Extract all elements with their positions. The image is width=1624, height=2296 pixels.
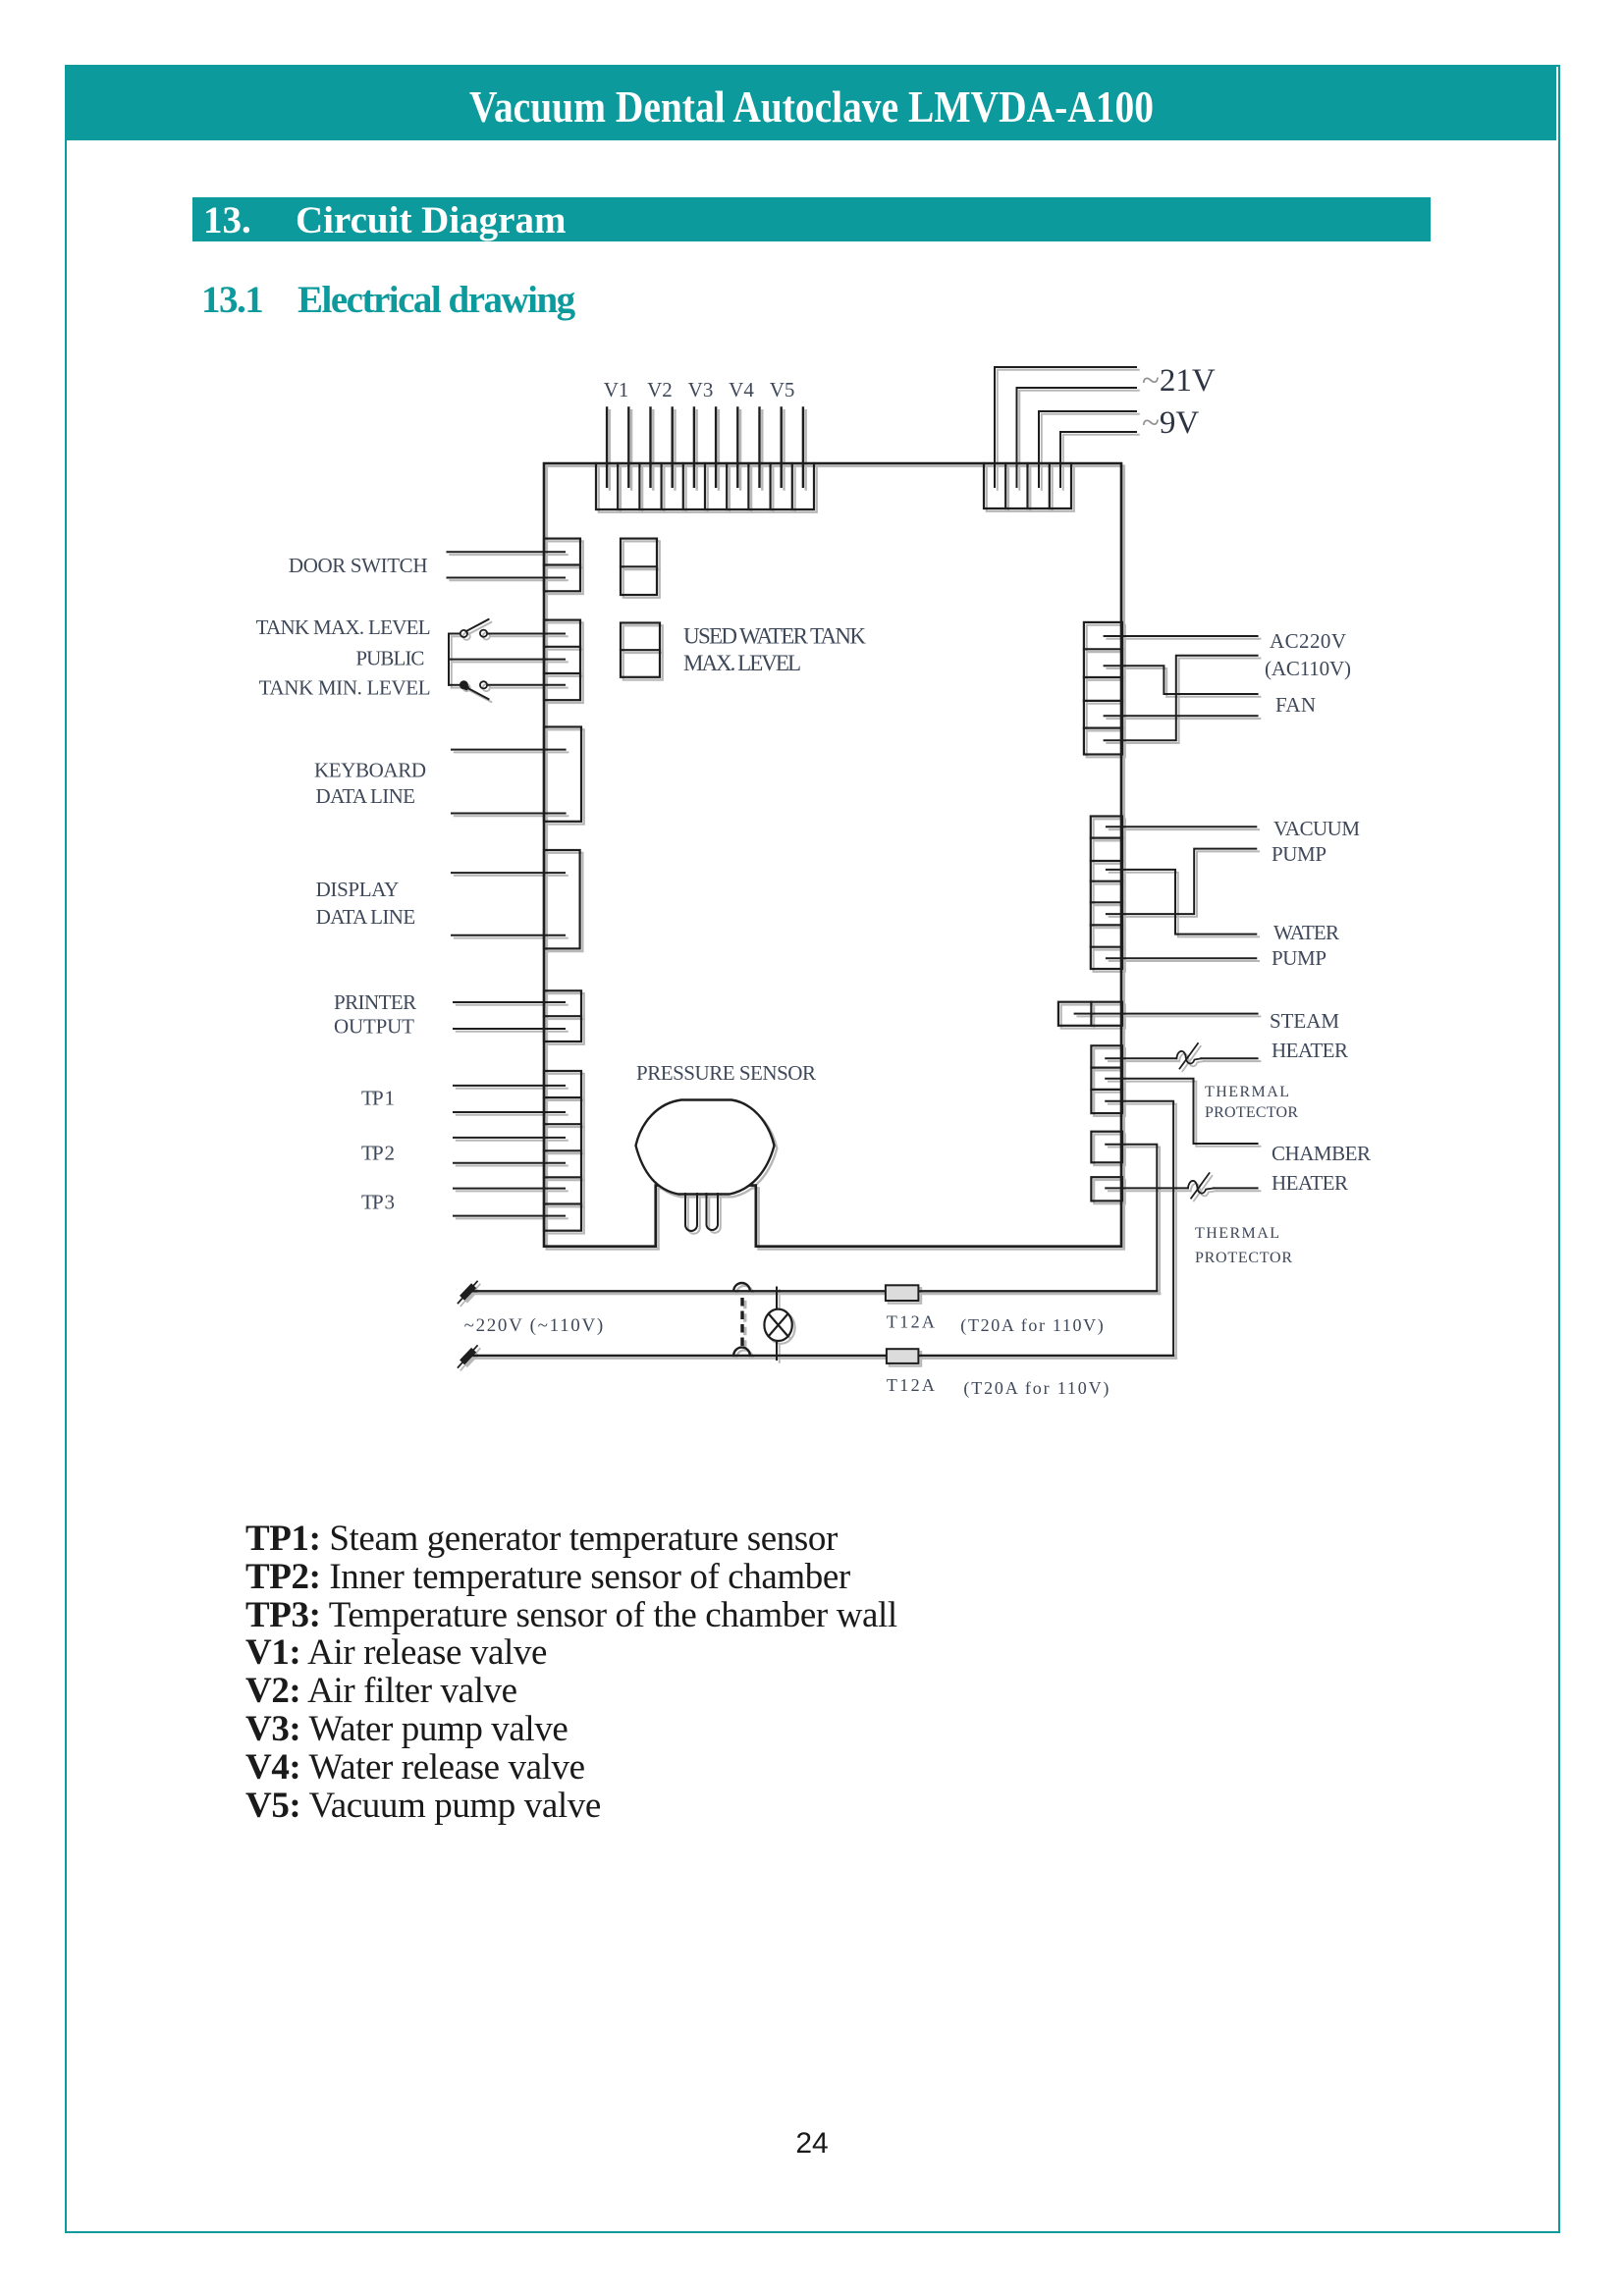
svg-text:T12A: T12A [887,1375,935,1395]
wire keyboard data 2 [452,813,566,815]
valve V2 coil pins [651,407,673,486]
wire door switch pin 1 [448,551,566,553]
wire 9V a [1039,411,1136,487]
connector J3 door switch [544,539,580,592]
node PUBLIC bus [449,634,565,685]
terminal X2 neutral [459,1346,478,1367]
wire TP2 pin a [454,1137,565,1139]
svg-text:~21V: ~21V [1142,363,1216,399]
svg-text:WATER: WATER [1273,921,1339,944]
subsection heading 13.1 [192,277,1076,279]
wire printer pin 2 [454,1028,565,1030]
connector J13 chamber heater a [1091,1132,1122,1163]
connector J10 pumps [1091,817,1122,970]
pressure sensor pin 2 [707,1194,719,1230]
wire fan a [1105,666,1258,694]
wire vacuum pump a [1107,826,1256,828]
wire printer pin 1 [454,1001,565,1003]
svg-text:KEYBOARD: KEYBOARD [314,759,426,782]
wire 9V b [1060,432,1136,487]
thermal protector F4 [1188,1173,1214,1199]
wire TP3 pin b [454,1215,565,1217]
svg-text:THERMAL: THERMAL [1195,1225,1279,1242]
connector J13 chamber heater b [1091,1177,1122,1201]
wire TP2 pin b [454,1162,565,1164]
controller board outline U1 [544,463,1121,1247]
connector J4 tank level [544,620,580,701]
svg-text:PROTECTOR: PROTECTOR [1205,1104,1298,1121]
wire chamber heater live [1106,1145,1157,1292]
svg-text:STEAM: STEAM [1270,1009,1339,1033]
shadow layer [450,370,1260,1370]
svg-text:~220V (~110V): ~220V (~110V) [464,1315,604,1336]
svg-text:DATA LINE: DATA LINE [316,905,416,929]
switch S2 tank min level [449,681,565,699]
svg-text:HEATER: HEATER [1272,1039,1348,1062]
wire display data 2 [452,934,565,936]
connector J9 mains and fan [1084,622,1122,755]
connector J2 transformer secondary [984,463,1071,508]
svg-text:OUTPUT: OUTPUT [334,1015,414,1039]
page number [0,2127,1624,2161]
switch S1 tank max level [449,619,565,637]
svg-text:TP 3: TP 3 [361,1191,395,1214]
wire mains neutral [471,1355,1173,1357]
section heading 13 [192,197,1431,241]
terminal X1 live [459,1282,478,1304]
switch S3 door interlock dashed link [733,1283,750,1356]
svg-text:V5: V5 [770,378,795,401]
thermal protector F3 [1176,1043,1201,1069]
header bar [67,67,1556,140]
svg-text:(T20A for 110V): (T20A for 110V) [963,1378,1109,1399]
wire steam heater a [1075,1013,1258,1015]
wire chamber heater b [1106,1187,1257,1189]
svg-text:PRESSURE SENSOR: PRESSURE SENSOR [636,1061,816,1085]
wire AC110V output [1105,656,1258,741]
connector J8 temperature sensors [544,1071,581,1231]
svg-text:PROTECTOR: PROTECTOR [1195,1250,1292,1266]
connector J1 valve outputs [596,463,814,509]
wire TP1 pin b [454,1111,565,1113]
svg-text:HEATER: HEATER [1272,1171,1348,1195]
wire keyboard data 1 [452,749,566,751]
connector J11 steam heater [1058,1002,1122,1026]
svg-text:DATA LINE: DATA LINE [316,784,416,808]
connector J15 used water tank level b [621,623,660,677]
wire 21V b [1017,388,1137,487]
svg-text:TP 2: TP 2 [361,1142,395,1165]
svg-text:PUMP: PUMP [1272,946,1326,970]
fuse F1 T12A [886,1285,919,1301]
pressure sensor pin 1 [685,1194,697,1231]
svg-text:T12A: T12A [887,1312,935,1332]
wire TP3 pin a [454,1188,565,1190]
svg-text:V4: V4 [729,378,754,401]
wire 21V a [995,367,1136,487]
svg-text:V3: V3 [688,378,714,401]
wire chamber heater return [1106,1079,1257,1144]
wire display data 1 [452,872,565,874]
wire TP1 pin a [454,1085,565,1087]
fuse F2 T12A [887,1349,919,1363]
wire steam heater b [1106,1057,1257,1059]
svg-text:(T20A for 110V): (T20A for 110V) [960,1315,1104,1336]
pressure sensor B1 body [636,1100,775,1195]
valve V5 coil pins [782,407,803,486]
valve V4 coil pins [737,407,759,486]
svg-text:DOOR SWITCH: DOOR SWITCH [289,554,428,577]
wire neutral return [1106,1101,1173,1356]
connector J5 keyboard [544,727,581,822]
svg-text:(AC110V): (AC110V) [1265,657,1351,680]
svg-text:V2: V2 [647,378,673,401]
wire water pump b [1107,957,1256,959]
svg-text:MAX. LEVEL: MAX. LEVEL [683,651,801,675]
wire water pump a [1107,870,1256,934]
svg-text:TANK MIN. LEVEL: TANK MIN. LEVEL [259,676,431,700]
svg-text:PUMP: PUMP [1272,842,1326,866]
svg-text:DISPLAY: DISPLAY [316,878,400,901]
legend list [245,1521,897,1825]
svg-text:FAN: FAN [1275,693,1316,717]
valve V1 coil pins [607,407,628,486]
svg-text:PUBLIC: PUBLIC [355,647,424,670]
svg-text:V1: V1 [604,378,629,401]
svg-text:CHAMBER: CHAMBER [1272,1142,1371,1165]
connector J14 used water tank level a [621,539,657,595]
wire mains live [471,1290,1157,1292]
wire vacuum pump b [1107,849,1256,915]
connector J6 display [544,850,580,948]
svg-text:PRINTER: PRINTER [334,990,416,1014]
connector J12 heater returns [1091,1045,1122,1113]
valve V3 coil pins [694,407,716,486]
svg-text:AC220V: AC220V [1270,629,1346,653]
wire AC220V output [1105,635,1258,637]
svg-text:THERMAL: THERMAL [1205,1084,1289,1100]
wire fan b [1105,715,1258,717]
svg-text:TANK MAX. LEVEL: TANK MAX. LEVEL [256,615,431,639]
svg-text:VACUUM: VACUUM [1273,817,1360,840]
connector J7 printer [544,990,581,1041]
lamp H1 [764,1288,791,1361]
svg-text:TP 1: TP 1 [361,1087,395,1110]
svg-text:USED WATER TANK: USED WATER TANK [683,624,866,649]
svg-text:~9V: ~9V [1142,405,1199,441]
wire door switch pin 2 [448,577,566,579]
